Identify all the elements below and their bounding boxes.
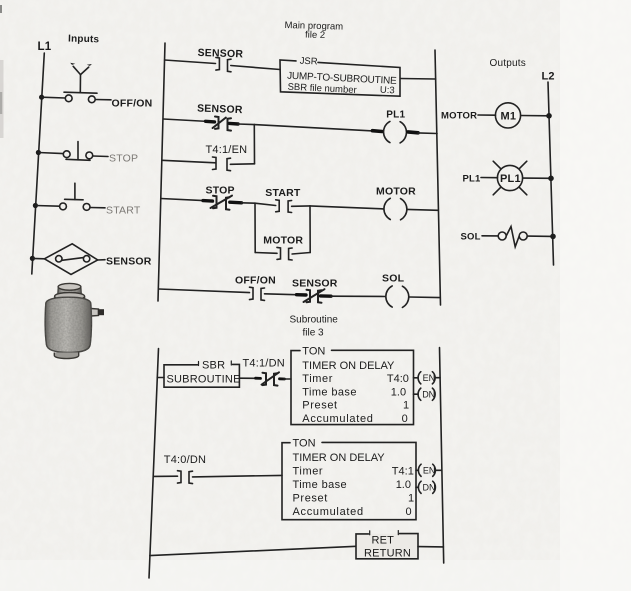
wire L1 to SENSOR proximity switch <box>32 257 44 259</box>
bold ink dash left of SENSOR XIO rung 4 <box>297 293 307 297</box>
bold ink dash right of STOP XIO <box>230 200 242 204</box>
wire L1 to OFF/ON switch <box>42 96 66 99</box>
pilot lamp PL1 <box>497 165 522 190</box>
RET block <box>356 534 418 559</box>
rung 2 wire: left rail to T4:0/DN contact <box>153 475 177 477</box>
parallel branch vertical (rung 2) <box>253 125 255 164</box>
photo: sensor main body <box>45 297 91 352</box>
svg-text:OFF/ON: OFF/ON <box>235 275 276 287</box>
parallel branch vertical left (rung 3) <box>254 203 256 252</box>
L1 input power rail <box>32 53 45 274</box>
svg-text:OFF/ON: OFF/ON <box>112 98 153 110</box>
svg-text:START: START <box>265 187 301 199</box>
switch OFF/ON (wobble-stick operator, two terminals) <box>65 95 72 102</box>
svg-text:STOP: STOP <box>206 185 235 197</box>
svg-text:RET: RET <box>372 535 395 547</box>
branch wire: T4:1/EN contact to branch vertical <box>230 163 254 166</box>
svg-text:Preset: Preset <box>302 400 337 412</box>
wire: MOTOR coil to right rail <box>407 208 438 211</box>
svg-text:SENSOR: SENSOR <box>106 256 152 268</box>
node: STOP junction dot <box>36 150 41 155</box>
branch wire: to MOTOR contact <box>255 252 277 255</box>
TON block 2 (timer T4:1) <box>282 442 416 519</box>
svg-text:RETURN: RETURN <box>364 548 411 560</box>
subroutine left rail <box>149 349 159 579</box>
(EN) output coil 2 <box>416 469 418 471</box>
node: START junction dot <box>33 203 38 208</box>
TON block 1 (timer T4:0) <box>291 350 414 424</box>
svg-text:SOL: SOL <box>461 232 481 243</box>
branch wire: left rail to T4:1/EN contact <box>162 160 215 163</box>
svg-text:U:3: U:3 <box>380 85 395 97</box>
contact SENSOR (XIO) rung 2 <box>215 117 219 129</box>
rung 4 wire: left rail to OFF/ON contact <box>159 289 250 293</box>
svg-text:TON: TON <box>293 438 316 450</box>
svg-text:Time base: Time base <box>302 386 357 398</box>
wire: branch node to PL1 coil <box>254 125 373 131</box>
svg-text:T4:0/DN: T4:0/DN <box>164 454 206 466</box>
svg-text:DN: DN <box>422 390 435 400</box>
svg-text:SENSOR: SENSOR <box>197 47 243 61</box>
svg-text:TON: TON <box>302 346 325 358</box>
svg-text:STOP: STOP <box>109 153 138 165</box>
(DN) output coil 1 <box>414 393 419 395</box>
wire: PL1 coil to right rail <box>418 132 437 135</box>
wire L1 to START switch <box>35 205 59 208</box>
contact SENSOR (XIO) rung 4 <box>307 290 311 302</box>
photo: connector stub right <box>91 309 99 317</box>
svg-text:Timer: Timer <box>293 466 324 478</box>
bold ink dash left of PL1 coil <box>373 129 383 133</box>
photo: sensor collar <box>55 297 85 302</box>
svg-text:SBR: SBR <box>202 359 225 371</box>
SBR block <box>164 364 239 387</box>
wire L1 to STOP switch <box>38 153 63 154</box>
solenoid SOL <box>498 232 506 240</box>
svg-text:EN: EN <box>423 373 436 383</box>
parallel branch vertical right (rung 3) <box>309 206 311 253</box>
svg-text:T4:1/EN: T4:1/EN <box>206 144 248 156</box>
wire: STOP XIO to branch node 1 <box>242 202 256 204</box>
wire START to label <box>90 207 105 209</box>
contact START (XIC) rung 3 <box>276 200 280 212</box>
subroutine right rail <box>440 348 444 563</box>
switch START (NO pushbutton) <box>60 203 67 210</box>
svg-text:1: 1 <box>403 400 409 412</box>
svg-text:T4:1: T4:1 <box>392 466 414 478</box>
wire OFF/ON to label <box>95 99 111 101</box>
svg-text:file 2: file 2 <box>305 30 325 42</box>
main ladder left rail <box>158 43 165 301</box>
bold ink dash right of SENSOR XIO rung 4 <box>321 294 332 298</box>
svg-text:Timer: Timer <box>302 373 333 385</box>
svg-text:0: 0 <box>402 413 408 425</box>
coil MOTOR <box>384 198 407 220</box>
svg-text:L1: L1 <box>38 41 52 53</box>
bold ink dash right of SENSOR XIO <box>229 122 238 126</box>
bold ink dash left of SENSOR XIO <box>206 120 215 124</box>
(DN) output coil 2 <box>416 486 418 488</box>
rung 3 wire: left rail to STOP XIO <box>161 199 206 201</box>
svg-text:SENSOR: SENSOR <box>197 103 243 117</box>
wire: T4:0/DN contact to TON block 2 <box>193 475 283 477</box>
wire: SENSOR contact to JSR block <box>231 66 280 70</box>
wire: SBR block to T4:1/DN contact <box>239 377 259 379</box>
svg-text:SUBROUTINE: SUBROUTINE <box>167 374 241 386</box>
node: OFF/ON junction dot <box>39 95 44 100</box>
svg-text:Time base: Time base <box>293 479 348 491</box>
svg-text:TIMER ON DELAY: TIMER ON DELAY <box>293 452 386 464</box>
svg-text:DN: DN <box>423 483 436 493</box>
contact STOP (XIO) rung 3 <box>213 196 217 208</box>
svg-text:Accumulated: Accumulated <box>302 413 373 425</box>
svg-text:Preset: Preset <box>293 493 328 505</box>
svg-text:MOTOR: MOTOR <box>263 235 303 247</box>
contact OFF/ON (XIC) rung 4 <box>250 287 254 299</box>
wire: branch node 2 to MOTOR coil <box>310 206 384 209</box>
contact T4:0/DN (XIC) <box>178 471 182 483</box>
svg-text:1: 1 <box>408 493 414 505</box>
svg-text:T4:1/DN: T4:1/DN <box>243 358 285 370</box>
rung 3 wire: left rail to RET block <box>150 546 356 555</box>
wire: SOL coil to right rail <box>409 296 440 299</box>
node: SENSOR junction dot <box>30 256 35 261</box>
bold ink dash right of T4:1/DN XIO <box>280 377 285 380</box>
svg-text:Inputs: Inputs <box>68 34 100 46</box>
switch STOP (NC pushbutton) <box>63 151 70 158</box>
svg-text:JSR: JSR <box>299 56 318 68</box>
node: M1 junction dot on L2 <box>546 113 552 119</box>
main ladder right rail <box>435 50 441 305</box>
svg-text:START: START <box>106 205 141 217</box>
sensor photo (proximity sensor drawing) <box>45 283 104 358</box>
wire: lamp to L2 rail <box>523 177 551 179</box>
branch wire: MOTOR contact to right vertical <box>292 253 310 255</box>
svg-text:Subroutine: Subroutine <box>290 315 339 326</box>
wire: OFF/ON contact to SENSOR XIO <box>265 294 301 295</box>
node: PL1 junction dot on L2 <box>548 176 554 182</box>
svg-text:MOTOR: MOTOR <box>376 186 416 198</box>
svg-text:T4:0: T4:0 <box>387 373 409 385</box>
wire: branch node 1 to START contact <box>255 203 276 205</box>
svg-text:0: 0 <box>406 506 412 518</box>
wire: SENSOR XIO to branch node <box>238 123 254 126</box>
wire SENSOR to label <box>98 259 105 261</box>
svg-text:PL1: PL1 <box>500 173 521 185</box>
wire: SOL label to solenoid <box>482 235 498 237</box>
contact SENSOR (XIC) rung 1 <box>216 58 220 71</box>
switch SENSOR (proximity limit switch diamond) <box>44 244 97 275</box>
svg-text:Outputs: Outputs <box>490 58 526 69</box>
motor M1 <box>495 103 520 128</box>
svg-text:Accumulated: Accumulated <box>293 506 364 518</box>
svg-text:PL1: PL1 <box>386 109 405 120</box>
node: SOL junction dot on L2 <box>550 234 556 240</box>
bold ink dash left of T4:1/DN XIO <box>256 377 261 380</box>
wire: START contact to branch node 2 <box>292 205 310 207</box>
svg-text:TIMER ON DELAY: TIMER ON DELAY <box>302 360 395 372</box>
svg-text:SENSOR: SENSOR <box>292 278 338 290</box>
svg-text:1.0: 1.0 <box>396 479 411 491</box>
contact MOTOR (XIC) parallel branch <box>277 247 281 259</box>
wire: JSR block to right rail <box>401 78 436 81</box>
wire: left rail to SBR block <box>157 377 164 379</box>
rung 1 wire: left rail to SENSOR contact <box>165 60 216 64</box>
bold ink dash left of STOP XIO <box>203 199 213 203</box>
contact T4:1/DN (XIO) <box>263 373 267 385</box>
svg-text:SOL: SOL <box>382 273 405 285</box>
(EN) output coil 1 <box>414 377 419 379</box>
wire: MOTOR label to M1 <box>478 114 496 116</box>
svg-text:L2: L2 <box>542 71 555 83</box>
bold ink dash right of PL1 coil <box>408 130 418 135</box>
JSR block U:3 <box>280 60 400 96</box>
wire: solenoid to L2 rail <box>527 235 553 237</box>
svg-text:EN: EN <box>423 466 436 476</box>
svg-text:MOTOR: MOTOR <box>441 111 477 122</box>
photo: sensor cap <box>58 287 82 296</box>
wire STOP to label <box>93 155 108 158</box>
coil PL1 <box>384 121 407 142</box>
svg-text:file 3: file 3 <box>303 328 325 339</box>
photo: sensor foot <box>54 353 78 359</box>
wire: M1 to L2 rail <box>521 115 549 117</box>
wire: SENSOR XIO to SOL coil <box>331 295 385 297</box>
wire: PL1 label to lamp <box>481 177 498 179</box>
svg-text:PL1: PL1 <box>463 174 482 185</box>
svg-text:1.0: 1.0 <box>391 386 406 398</box>
rung 2 wire: left rail to SENSOR XIO <box>163 119 209 122</box>
L2 output power rail <box>548 82 554 265</box>
wire: RET block to right rail <box>418 546 443 548</box>
contact T4:1/EN (XIC) <box>213 157 217 170</box>
wire: T4:1/DN contact to TON block 1 <box>284 378 291 380</box>
svg-text:M1: M1 <box>501 111 517 123</box>
coil SOL <box>386 286 409 308</box>
